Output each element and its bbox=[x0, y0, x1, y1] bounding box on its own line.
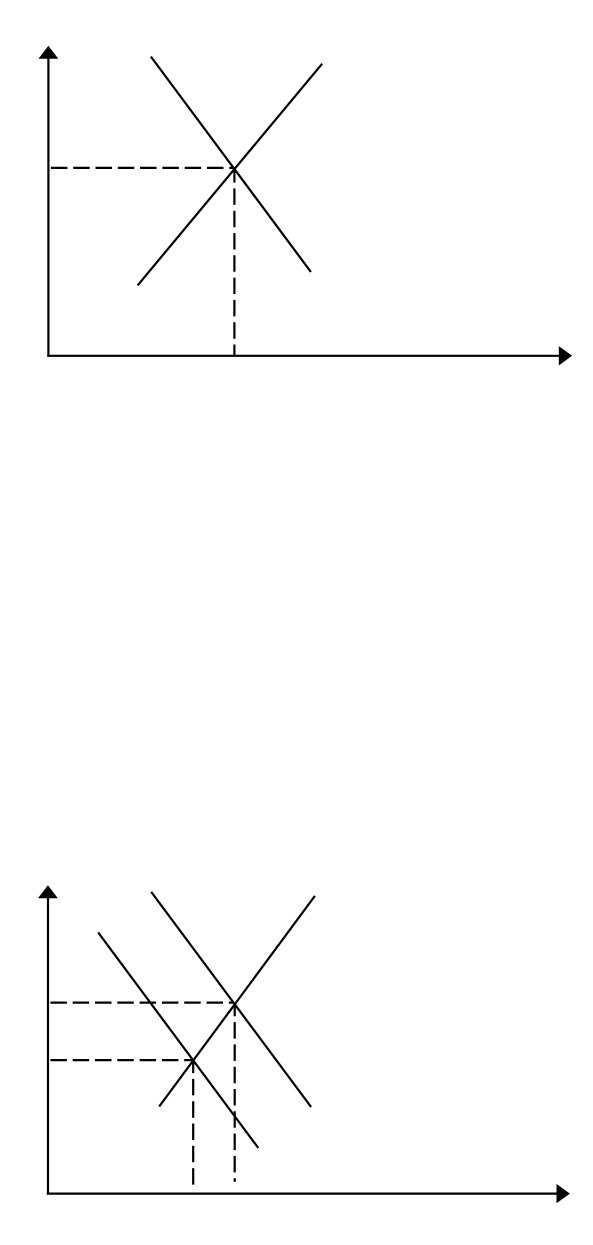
top diagram: dashed equilibrium quantity line bbox=[233, 169, 235, 357]
bottom diagram: dashed price line P1 (lower) bbox=[50, 1059, 192, 1061]
bottom diagram: supply curve (upward sloping) bbox=[159, 896, 315, 1107]
top diagram: x-axis (quantity axis) bbox=[47, 355, 560, 357]
top diagram: y-axis (price axis) bbox=[47, 56, 49, 357]
bottom diagram: dashed quantity line Q2 (right vertical, ends with dot) bbox=[234, 1005, 236, 1182]
bottom diagram: y-axis arrowhead bbox=[38, 885, 58, 898]
bottom diagram: y-axis (price axis) bbox=[47, 896, 49, 1195]
bottom diagram: x-axis arrowhead bbox=[557, 1184, 570, 1203]
top diagram: y-axis arrowhead bbox=[39, 46, 59, 59]
bottom diagram: dashed price line P2 (upper) bbox=[50, 1001, 233, 1003]
top diagram: dashed equilibrium price line bbox=[51, 167, 234, 169]
top diagram: x-axis arrowhead bbox=[559, 346, 572, 365]
bottom diagram: dashed quantity line Q1 (left vertical) bbox=[192, 1061, 194, 1185]
bottom diagram: original demand curve D1 (left, downward sloping) bbox=[98, 932, 258, 1148]
bottom diagram: shifted demand curve D2 (right, downward sloping) bbox=[151, 892, 311, 1107]
top diagram: supply curve (upward sloping) bbox=[138, 64, 323, 286]
top diagram: demand curve (downward sloping) bbox=[151, 57, 311, 272]
bottom diagram: x-axis (quantity axis) bbox=[47, 1192, 558, 1194]
